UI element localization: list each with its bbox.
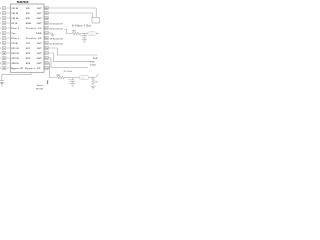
svg-text:OUT: OUT [37,23,43,25]
pill connector bottom (CVBS jack) [79,76,89,79]
wire pin17 staircase to Y line [48,53,90,62]
svg-text:N: N [0,48,2,50]
pin 25 right [26,12,49,16]
svg-text:75Ω: 75Ω [72,30,76,32]
pin 8 left [0,42,18,46]
svg-text:+: + [68,79,70,81]
svg-text:GND: GND [36,33,42,35]
capacitor C2 (bottom, polarized) [70,78,75,84]
svg-text:+: + [80,35,82,37]
pin 23 right [26,22,63,26]
pill connector top (Y jack) [88,32,97,35]
pin 7 left [0,37,20,41]
wire pin26 to S-Video connector [48,8,96,18]
svg-text:75: 75 [95,82,98,84]
svg-text:C: C [0,28,2,30]
svg-text:SV IN: SV IN [11,23,17,25]
svg-text:SP3 IN: SP3 IN [11,58,19,60]
svg-text:VD IN: VD IN [11,43,18,45]
svg-text:VID IN: VID IN [11,18,18,20]
right pin rows [25,7,63,71]
pin 5 left [0,27,20,31]
IC U1 body [11,4,45,72]
svg-text:OUT: OUT [37,53,43,55]
ground at pin 21 [51,33,55,37]
capacitor C3 bottom-left bypass [0,81,3,84]
svg-text:OUT: OUT [37,43,43,45]
svg-text:THS7316: THS7316 [17,0,29,4]
resistor R2 75ohm (bottom chain, zigzag) [57,76,64,79]
pin 6 left [0,32,16,36]
pin 22 right [26,27,63,31]
S-Video connector J1 [92,18,99,24]
pin 21 right GND [36,32,53,36]
pin 12 left [0,62,19,66]
svg-text:N: N [0,63,2,65]
svg-text:PbY: PbY [90,61,95,63]
wire after resistor R1 [80,33,88,35]
svg-text:S-Video Y Out: S-Video Y Out [72,24,91,27]
svg-text:2: 2 [0,23,2,25]
left pin rows: fragments, number boxes, wires, labels [0,7,24,71]
svg-text:Filter 2: Filter 2 [11,27,19,30]
pin 19 right [26,42,63,46]
svg-text:Disable SP: Disable SP [26,38,42,40]
svg-text:SV Disable IN: SV Disable IN [50,29,63,31]
svg-text:RGB: RGB [26,23,31,25]
ground below C1 [82,40,87,43]
svg-text:SP2: SP2 [26,53,31,55]
pin 24 right [26,17,49,21]
pin 16 right [26,57,49,61]
wire pin14 stub [48,67,49,69]
wire pill to load node [89,77,95,79]
svg-text:SP1 IN: SP1 IN [11,48,19,50]
svg-text:SC Disable IN: SC Disable IN [50,43,64,45]
svg-text:Sysem: Sysem [37,85,44,87]
svg-text:N: N [0,13,2,15]
svg-text:VID: VID [26,18,30,20]
ground below R3 [91,86,96,89]
resistor R3 75ohm (vertical load) [92,78,95,86]
svg-text:Y-Out: Y-Out [90,64,96,67]
pin 3 left [0,17,19,21]
wire pill to edge top [97,33,99,35]
svg-text:PuR: PuR [93,58,98,60]
pin 1 left [0,7,19,11]
wire chain mid [64,77,79,79]
svg-text:B: B [0,68,2,70]
pin 17 right [26,52,49,56]
svg-text:VID IN: VID IN [11,13,18,15]
net stub Y Out feeding top RC [64,30,72,34]
svg-text:SP Disable IN: SP Disable IN [50,38,63,40]
pin 26 right [26,7,49,11]
pin 10 left [0,52,19,56]
pin 14 right [25,67,48,71]
dark tick mark near bottom of staircase [47,80,49,84]
svg-text:OUT: OUT [37,48,43,50]
svg-text:VID: VID [26,13,30,15]
wire pin16 staircase to Pb line [48,58,88,68]
svg-text:Bypass SP: Bypass SP [25,68,41,70]
svg-text:OUT: OUT [37,58,43,60]
svg-text:Pr-Y Out: Pr-Y Out [64,70,72,73]
pin 4 left [0,22,18,26]
svg-text:N: N [0,18,2,20]
svg-text:P: P [0,58,2,60]
ground below C3 [0,84,3,86]
svg-text:VID IN: VID IN [11,8,18,10]
svg-text:Disable SV: Disable SV [26,28,42,30]
pin 2 left [0,12,19,16]
svg-text:Bypass SP: Bypass SP [11,68,23,70]
svg-text:OUT: OUT [37,63,43,65]
svg-text:Jack: Jack [89,34,93,36]
svg-text:SP2 IN: SP2 IN [11,53,19,55]
svg-text:1: 1 [0,38,2,40]
pin 18 right [26,47,49,51]
pin 13 left [0,67,24,71]
svg-text:SP4: SP4 [26,62,31,65]
wire pin25 to S-Video connector [48,13,92,18]
svg-text:OUT: OUT [37,13,43,15]
wires group [2,8,99,80]
pin 11 left [0,57,19,61]
svg-text:OUT: OUT [37,18,43,20]
svg-text:SP3: SP3 [26,58,31,60]
arrow end bottom right [96,74,99,77]
svg-text:OUT: OUT [37,8,43,10]
svg-text:SP UM: SP UM [36,88,43,90]
svg-text:SP4 IN: SP4 IN [11,62,19,65]
svg-text:75Ω: 75Ω [56,75,60,77]
svg-text:VID: VID [26,8,30,10]
wire pin18 staircase to Pr line [48,48,97,55]
svg-text:N: N [0,8,2,10]
capacitor C1 (top, polarized) [82,34,87,40]
svg-text:Filter 1: Filter 1 [11,37,19,40]
svg-text:SP1: SP1 [26,48,31,50]
resistor R1 75ohm (top, zigzag) [72,32,79,35]
svg-text:Jack: Jack [81,78,85,80]
svg-text:Vcc: Vcc [11,33,16,35]
svg-text:SC Disable IN: SC Disable IN [50,23,64,25]
svg-text:P: P [0,53,2,55]
wire pin15 down to CVBS chain [48,63,57,78]
svg-text:N: N [0,43,2,45]
ground below C2 [70,84,75,87]
pin 20 right [26,37,63,41]
pin 15 right [26,62,49,66]
pin 9 left [0,47,19,51]
svg-text:CV1: CV1 [26,43,31,45]
svg-text:N: N [0,33,2,35]
bottom-left wire under IC [2,72,31,80]
